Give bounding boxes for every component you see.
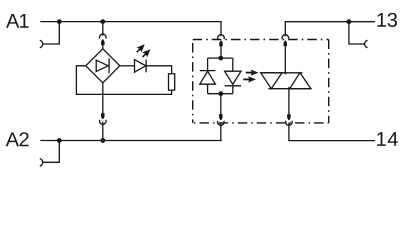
wire A1 rail [40, 21, 221, 23]
plug socket (female) top of bridge [100, 34, 107, 38]
terminal label 13 [377, 13, 397, 27]
wire bridge bottom vertex down [102, 83, 104, 114]
wire A2 rail [40, 140, 221, 142]
junction dot 13/terminal [347, 19, 352, 24]
bridge rectifier V1 diamond [86, 49, 120, 83]
junction dot opto input bottom [218, 91, 223, 96]
photo-triac top bar [261, 72, 303, 74]
wire coupler input bottom to A2 rail [220, 123, 222, 142]
LED light emission arrow 2 [142, 49, 150, 57]
light coupling arrow 1 [246, 70, 259, 76]
wire bridge left vertex to loop rail [76, 66, 171, 95]
wire triac top to 13 rail [285, 22, 375, 37]
plug socket (female) bottom of bridge [100, 120, 107, 124]
wire triac top electrode [284, 46, 286, 74]
plug socket (female) triac bottom [286, 121, 293, 125]
optocoupler boundary box [193, 40, 329, 123]
junction dot A2/terminal [57, 138, 62, 143]
wire A1 rail corner into coupler [220, 22, 222, 37]
light coupling arrow 2 [243, 76, 256, 82]
wire A2 terminal drop [43, 141, 60, 163]
plug pin (male) top of bridge [101, 39, 105, 45]
terminal label 14 [377, 132, 398, 146]
opto input diode down (right) [225, 71, 241, 84]
bridge rectifier internal diode [96, 60, 108, 71]
plug socket (female) coupler input bottom [217, 121, 224, 125]
terminal label A2 [6, 132, 29, 146]
plug pin (male) coupler input bottom [219, 114, 223, 120]
wire plug to A2 rail [102, 122, 104, 141]
resistor R1 [169, 74, 175, 90]
opto input right branch wire [232, 58, 234, 71]
wire LED to resistor top [146, 66, 172, 74]
plug socket (female) triac top [282, 35, 289, 39]
opto input left branch wire [207, 58, 209, 71]
wire opto input bottom down [220, 94, 222, 115]
LED D1 diode triangle [135, 60, 146, 73]
plug pin (male) triac top [284, 41, 288, 47]
photo-triac triangle down (left) [261, 73, 282, 89]
photo-triac triangle up (right) [290, 73, 311, 89]
wire 13 terminal drop [349, 22, 365, 44]
plug socket (female) coupler input top [218, 35, 225, 39]
terminal label A1 [6, 14, 29, 28]
photo-triac bottom bar [268, 88, 311, 90]
wire triac bottom to 14 rail [289, 123, 375, 141]
wire A1 to plug contact [102, 22, 104, 36]
plug pin (male) coupler input top [219, 41, 223, 47]
terminal socket contact A1 [40, 40, 43, 48]
wire triac bottom electrode [288, 87, 290, 115]
terminal socket contact A2 [40, 159, 43, 167]
wire A1 terminal drop [43, 22, 60, 44]
terminal socket contact 13 [365, 40, 368, 48]
plug pin (male) bottom of bridge [101, 113, 105, 119]
junction dot A2/bridge [100, 138, 105, 143]
opto input diode frame bottom rail [208, 93, 233, 95]
opto input diode frame top rail [208, 57, 233, 59]
LED light emission arrow 1 [137, 44, 145, 52]
wire bridge right vertex to LED [120, 65, 135, 67]
plug pin (male) triac bottom [287, 114, 291, 120]
opto input diode up (left) [200, 70, 216, 72]
junction dot A1/bridge [100, 19, 105, 24]
junction dot opto input top [218, 56, 223, 61]
junction dot A1/terminal [57, 19, 62, 24]
